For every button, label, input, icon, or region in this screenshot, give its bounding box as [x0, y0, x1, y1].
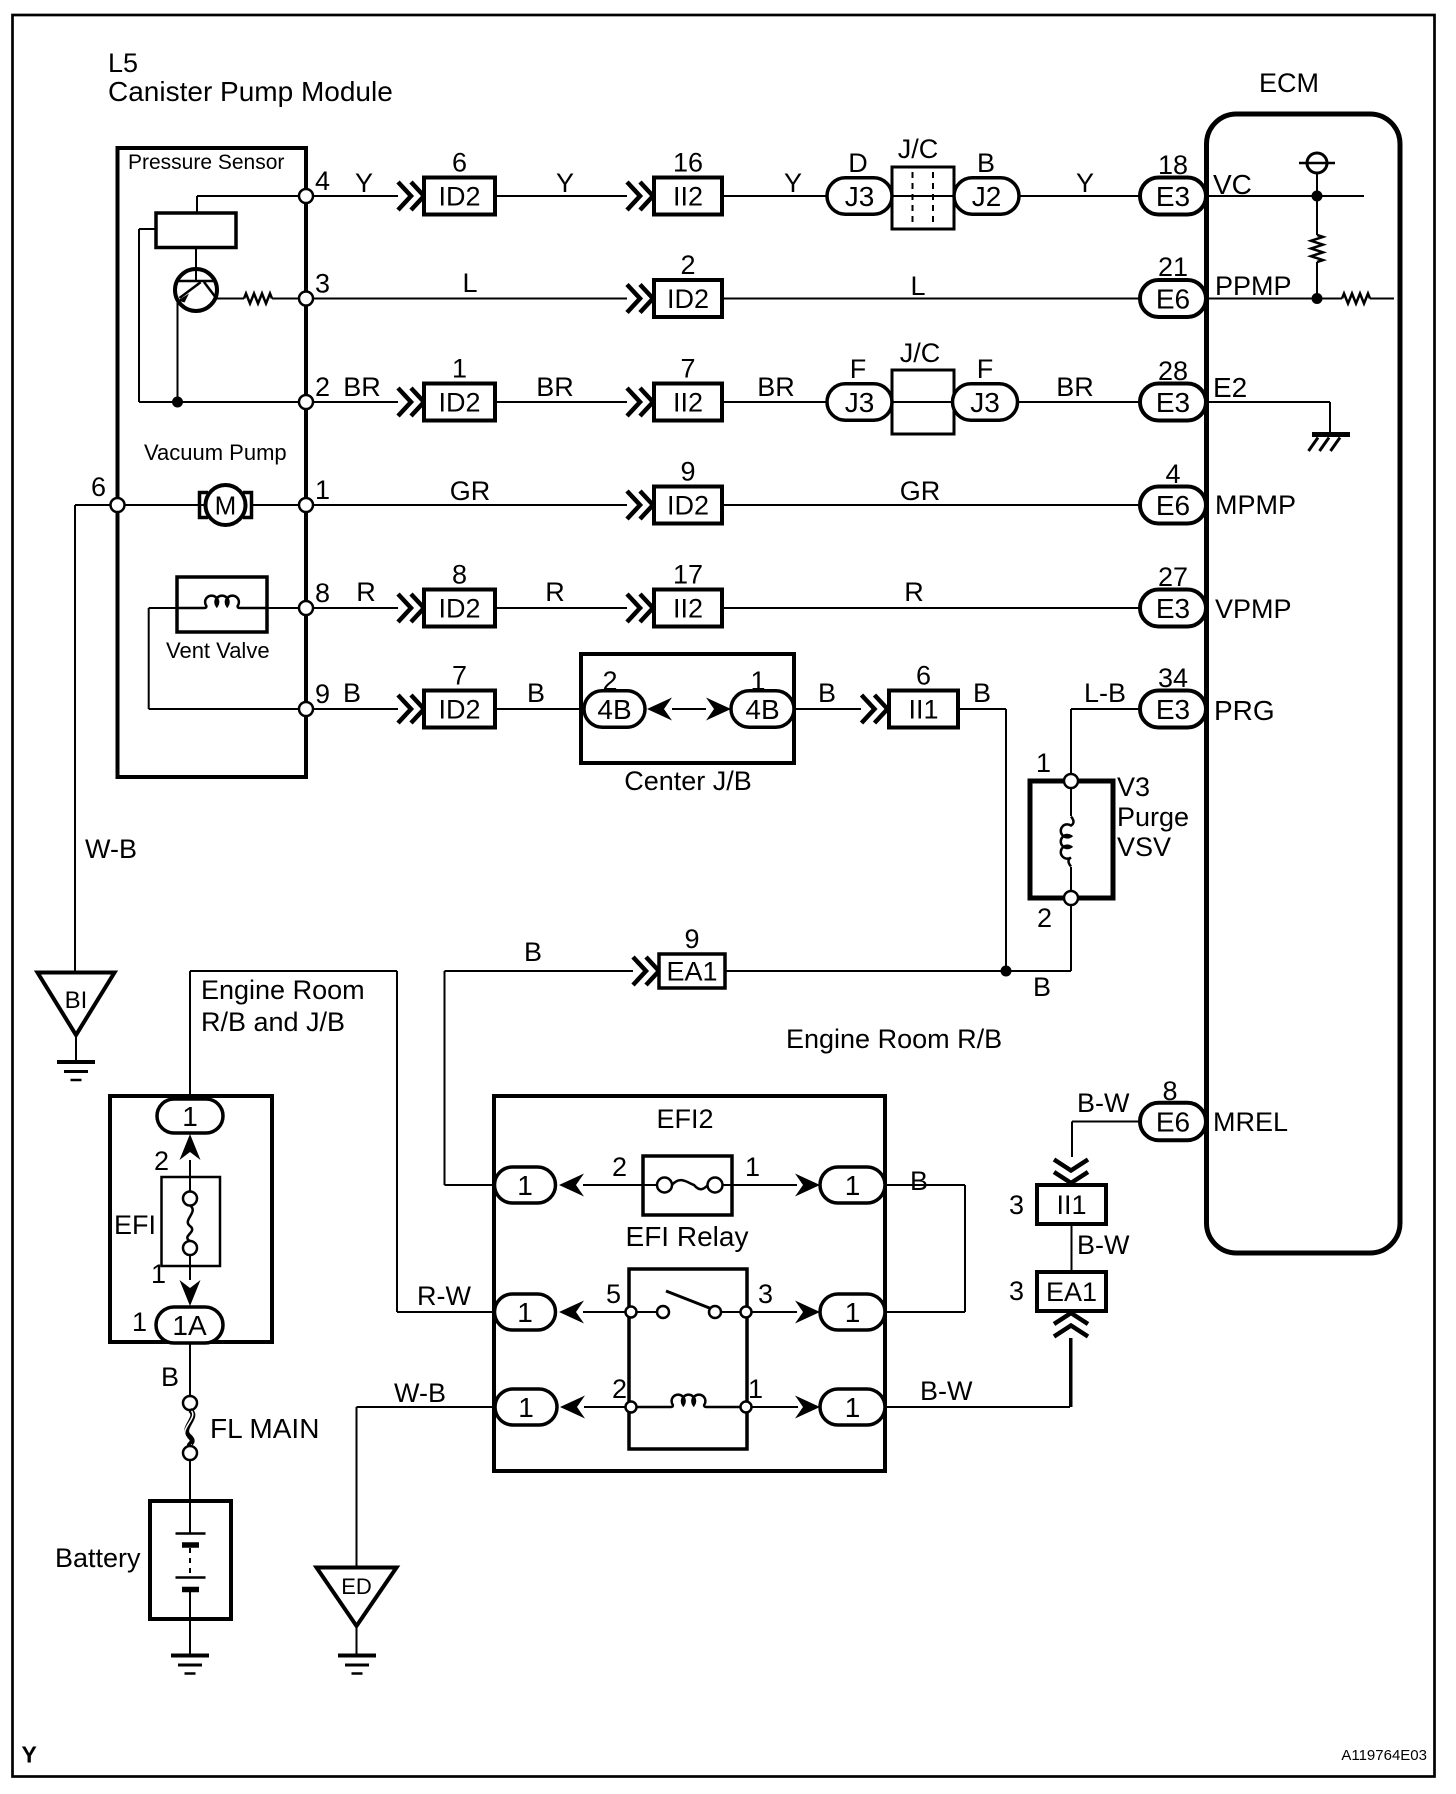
- svg-text:B: B: [527, 678, 545, 708]
- svg-text:F: F: [977, 354, 994, 384]
- svg-text:B: B: [973, 678, 991, 708]
- svg-text:J/C: J/C: [900, 338, 941, 368]
- svg-text:B: B: [910, 1166, 928, 1196]
- svg-text:6: 6: [91, 472, 106, 502]
- svg-text:E3: E3: [1156, 181, 1190, 212]
- svg-text:3: 3: [1009, 1190, 1024, 1220]
- svg-text:VSV: VSV: [1117, 832, 1171, 862]
- svg-text:ED: ED: [341, 1574, 372, 1599]
- svg-text:8: 8: [452, 560, 467, 590]
- svg-text:E3: E3: [1156, 593, 1190, 624]
- svg-text:EA1: EA1: [666, 957, 717, 987]
- svg-text:6: 6: [916, 661, 931, 691]
- svg-text:F: F: [850, 354, 867, 384]
- svg-text:1A: 1A: [172, 1310, 207, 1341]
- svg-text:PPMP: PPMP: [1215, 271, 1292, 301]
- svg-text:D: D: [848, 148, 868, 178]
- svg-text:1: 1: [315, 475, 330, 505]
- svg-text:2: 2: [602, 666, 617, 696]
- svg-text:L-B: L-B: [1084, 678, 1126, 708]
- svg-text:3: 3: [758, 1279, 773, 1309]
- svg-text:2: 2: [154, 1146, 169, 1176]
- svg-text:B-W: B-W: [920, 1376, 973, 1406]
- svg-text:II2: II2: [673, 594, 703, 624]
- svg-text:B: B: [161, 1362, 179, 1392]
- svg-text:ID2: ID2: [438, 388, 480, 418]
- svg-text:7: 7: [680, 354, 695, 384]
- svg-text:MPMP: MPMP: [1215, 490, 1296, 520]
- svg-text:Y: Y: [1076, 168, 1094, 198]
- svg-text:1: 1: [745, 1152, 760, 1182]
- svg-text:Pressure Sensor: Pressure Sensor: [128, 151, 284, 174]
- svg-text:4: 4: [1165, 459, 1180, 489]
- svg-text:1: 1: [151, 1259, 166, 1289]
- svg-text:J/C: J/C: [898, 134, 939, 164]
- svg-text:4: 4: [315, 166, 330, 196]
- svg-text:8: 8: [1162, 1076, 1177, 1106]
- svg-text:2: 2: [612, 1152, 627, 1182]
- svg-text:9: 9: [315, 679, 330, 709]
- svg-text:B-W: B-W: [1077, 1088, 1130, 1118]
- svg-text:EFI: EFI: [114, 1210, 156, 1240]
- svg-text:A119764E03: A119764E03: [1341, 1747, 1427, 1764]
- svg-text:BR: BR: [757, 372, 795, 402]
- svg-text:GR: GR: [900, 476, 941, 506]
- svg-text:II1: II1: [908, 695, 938, 725]
- svg-text:B-W: B-W: [1077, 1230, 1130, 1260]
- svg-text:VPMP: VPMP: [1215, 594, 1292, 624]
- svg-text:ID2: ID2: [438, 695, 480, 725]
- svg-text:Y: Y: [784, 168, 802, 198]
- svg-text:R-W: R-W: [417, 1281, 471, 1311]
- svg-text:FL MAIN: FL MAIN: [210, 1413, 319, 1444]
- svg-text:B: B: [524, 937, 542, 967]
- svg-text:R/B and J/B: R/B and J/B: [201, 1007, 345, 1037]
- svg-text:1: 1: [517, 1297, 533, 1328]
- svg-text:R: R: [545, 577, 565, 607]
- svg-text:GR: GR: [450, 476, 491, 506]
- svg-text:34: 34: [1158, 663, 1188, 693]
- svg-text:ID2: ID2: [667, 284, 709, 314]
- svg-text:ECM: ECM: [1259, 68, 1319, 98]
- svg-text:Y: Y: [355, 168, 373, 198]
- svg-text:27: 27: [1158, 562, 1188, 592]
- svg-text:J3: J3: [845, 387, 875, 418]
- svg-text:BR: BR: [536, 372, 574, 402]
- svg-text:J2: J2: [972, 181, 1002, 212]
- svg-text:1: 1: [845, 1297, 861, 1328]
- svg-text:V3: V3: [1117, 772, 1150, 802]
- svg-text:BI: BI: [65, 987, 88, 1014]
- svg-text:1: 1: [845, 1170, 861, 1201]
- svg-text:1: 1: [845, 1392, 861, 1423]
- svg-text:1: 1: [1036, 748, 1051, 778]
- svg-text:B: B: [977, 148, 995, 178]
- svg-text:5: 5: [606, 1279, 621, 1309]
- svg-text:B: B: [1033, 972, 1051, 1002]
- svg-text:2: 2: [1037, 903, 1052, 933]
- svg-text:6: 6: [452, 148, 467, 178]
- svg-text:E3: E3: [1156, 387, 1190, 418]
- svg-text:L5: L5: [108, 48, 138, 78]
- svg-text:ID2: ID2: [667, 491, 709, 521]
- svg-text:E6: E6: [1156, 284, 1190, 315]
- svg-text:E2: E2: [1213, 372, 1247, 403]
- svg-text:4B: 4B: [597, 694, 631, 725]
- svg-text:B: B: [818, 678, 836, 708]
- svg-text:EA1: EA1: [1046, 1277, 1097, 1307]
- svg-text:II1: II1: [1056, 1190, 1086, 1220]
- svg-text:Y: Y: [556, 168, 574, 198]
- svg-text:EFI2: EFI2: [656, 1104, 713, 1134]
- svg-text:Engine Room: Engine Room: [201, 975, 365, 1005]
- svg-text:4B: 4B: [745, 694, 779, 725]
- svg-text:1: 1: [750, 666, 765, 696]
- svg-text:2: 2: [315, 372, 330, 402]
- svg-text:II2: II2: [673, 388, 703, 418]
- svg-text:1: 1: [517, 1170, 533, 1201]
- svg-text:1: 1: [182, 1101, 198, 1132]
- svg-text:9: 9: [680, 457, 695, 487]
- svg-text:EFI Relay: EFI Relay: [626, 1221, 749, 1252]
- svg-text:W-B: W-B: [394, 1378, 446, 1408]
- svg-text:B: B: [343, 678, 361, 708]
- svg-text:7: 7: [452, 661, 467, 691]
- svg-text:1: 1: [132, 1307, 147, 1337]
- svg-text:28: 28: [1158, 356, 1188, 386]
- svg-text:1: 1: [748, 1374, 763, 1404]
- svg-text:21: 21: [1158, 252, 1188, 282]
- svg-text:L: L: [910, 271, 925, 301]
- svg-text:W-B: W-B: [85, 834, 137, 864]
- svg-text:ID2: ID2: [438, 594, 480, 624]
- svg-text:MREL: MREL: [1213, 1107, 1288, 1137]
- svg-text:PRG: PRG: [1214, 695, 1275, 726]
- svg-text:J3: J3: [845, 181, 875, 212]
- svg-text:ID2: ID2: [438, 182, 480, 212]
- svg-text:Vent Valve: Vent Valve: [166, 638, 270, 663]
- svg-text:1: 1: [452, 354, 467, 384]
- svg-text:J3: J3: [970, 387, 1000, 418]
- svg-text:L: L: [462, 268, 477, 298]
- svg-text:17: 17: [673, 560, 703, 590]
- svg-text:E3: E3: [1156, 694, 1190, 725]
- svg-text:BR: BR: [343, 372, 381, 402]
- svg-text:Y: Y: [22, 1742, 37, 1768]
- svg-text:E6: E6: [1156, 490, 1190, 521]
- svg-text:Center J/B: Center J/B: [624, 766, 752, 796]
- svg-text:Canister Pump Module: Canister Pump Module: [108, 76, 393, 107]
- svg-text:8: 8: [315, 578, 330, 608]
- svg-text:II2: II2: [673, 182, 703, 212]
- svg-text:16: 16: [673, 148, 703, 178]
- svg-text:R: R: [356, 577, 376, 607]
- svg-text:Engine Room R/B: Engine Room R/B: [786, 1024, 1002, 1054]
- svg-text:Purge: Purge: [1117, 802, 1189, 832]
- svg-text:3: 3: [1009, 1276, 1024, 1306]
- svg-text:9: 9: [684, 924, 699, 954]
- svg-text:M: M: [215, 491, 237, 521]
- svg-text:2: 2: [612, 1374, 627, 1404]
- svg-text:BR: BR: [1056, 372, 1094, 402]
- svg-text:Battery: Battery: [55, 1543, 141, 1573]
- svg-text:1: 1: [518, 1392, 534, 1423]
- svg-text:R: R: [904, 577, 924, 607]
- svg-text:2: 2: [680, 250, 695, 280]
- svg-text:18: 18: [1158, 150, 1188, 180]
- svg-text:Vacuum Pump: Vacuum Pump: [144, 440, 287, 465]
- svg-text:E6: E6: [1156, 1107, 1190, 1138]
- svg-text:3: 3: [315, 269, 330, 299]
